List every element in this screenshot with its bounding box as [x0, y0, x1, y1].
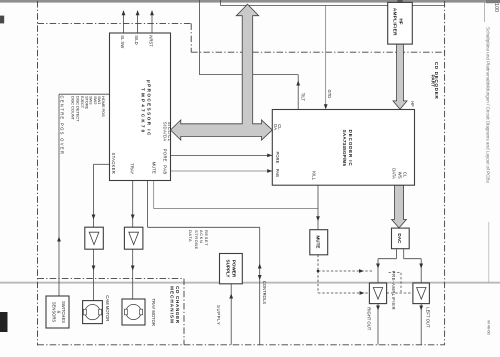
svg-text:STROBE: STROBE [194, 230, 199, 250]
label DATA ctrl [188, 230, 193, 242]
svg-text:TRAY: TRAY [130, 163, 135, 174]
svg-text:GTD: GTD [327, 90, 332, 99]
svg-text:CAM MOTOR: CAM MOTOR [105, 295, 110, 321]
label CL decoder [277, 124, 282, 130]
svg-text:KILL: KILL [311, 171, 316, 180]
chain border bottom [38, 344, 445, 346]
DAC block [392, 228, 410, 249]
label CD CHANGER MECHANISM [169, 286, 180, 324]
margin line mid [488, 222, 490, 283]
svg-text:PRE-AMPLIFIER: PRE-AMPLIFIER [391, 271, 396, 310]
page top scan band [0, 0, 500, 3]
wire DAC out right-ch [376, 249, 396, 283]
film marker top-left [0, 16, 4, 24]
label MUTE block [316, 235, 321, 248]
label DATA [392, 168, 397, 179]
label TILT [301, 93, 306, 102]
tray motor driver [124, 227, 142, 249]
bus HF amp to decoder [393, 44, 407, 109]
label DISC DETECT [76, 96, 81, 122]
label SUPPLY [216, 305, 221, 325]
label PORE decoder [275, 152, 280, 164]
wire controls from uP [148, 181, 260, 345]
chain box CD changer mechanism top [38, 278, 185, 280]
label PAB decoder [275, 169, 280, 177]
bus CL WS DATA to DAC [392, 185, 407, 228]
label CONTROLS [262, 281, 267, 304]
svg-text:TRAY MOTOR: TRAY MOTOR [151, 299, 156, 326]
svg-text:PAB: PAB [163, 165, 168, 174]
svg-text:SUPPLY: SUPPLY [226, 260, 231, 278]
label SIDA/DA [163, 122, 168, 142]
label NRST [149, 35, 154, 47]
svg-text:HF: HF [410, 101, 415, 107]
svg-text:SILD: SILD [134, 35, 139, 44]
wire GTD drop [324, 5, 328, 109]
label HOME POS [101, 96, 106, 117]
label EJECT [80, 96, 85, 109]
label CD DECODER PART [430, 62, 439, 100]
label WS [398, 172, 403, 179]
dashed mute to junction [317, 255, 319, 271]
chain border top segment B [191, 51, 444, 53]
label switches sensors [52, 301, 66, 323]
bus SICL/SIDA with branch to top [171, 4, 273, 140]
cam motor driver [85, 227, 104, 249]
svg-text:Schaltpläne und Platinenabbild: Schaltpläne und Platinenabbildungen / Ci… [485, 27, 490, 183]
label HF amplifier [393, 8, 404, 36]
svg-text:HF: HF [398, 19, 403, 25]
svg-text:SENSORS: SENSORS [52, 302, 57, 323]
wire left out [419, 304, 423, 345]
wire NRST pin up [150, 10, 154, 33]
svg-text:PORE: PORE [275, 152, 280, 164]
page fold line [0, 282, 500, 284]
power supply block [220, 254, 243, 284]
label DAC [397, 233, 402, 244]
wire MUTE from uP [154, 181, 318, 209]
label TRAY MOTOR [151, 299, 156, 326]
label GTD [327, 90, 332, 99]
label LEFT OUT [425, 307, 430, 328]
dashed preamp link [387, 292, 413, 294]
svg-text:WS: WS [398, 172, 403, 179]
dashed mute lower branch [318, 271, 369, 295]
label decoder title [342, 130, 353, 167]
wire tray drive [131, 181, 135, 228]
label SILD [134, 35, 139, 44]
svg-text:SIDA/DA: SIDA/DA [163, 122, 168, 142]
margin doc number [486, 320, 491, 335]
microprocessor IC block [110, 33, 171, 181]
controls double arrow [258, 264, 262, 281]
wire TILT run [199, 0, 300, 110]
bus pickup into HF amp [397, 0, 403, 3]
svg-text:CENTRE POS OVER: CENTRE POS OVER [59, 96, 64, 156]
svg-text:STACKER: STACKER [111, 153, 116, 175]
svg-text:µPROCESSOR IC: µPROCESSOR IC [146, 80, 151, 137]
svg-text:SL SW: SL SW [120, 35, 125, 48]
svg-text:CONTROLS: CONTROLS [262, 281, 267, 304]
svg-text:DATA: DATA [392, 168, 397, 179]
label SW3 [89, 96, 94, 105]
wire PAB [171, 169, 273, 173]
svg-text:TMP47CK70: TMP47CK70 [140, 88, 145, 134]
svg-text:AMPLIFIER: AMPLIFIER [393, 8, 398, 36]
margin page number [493, 3, 499, 12]
svg-text:DA: DA [273, 124, 278, 130]
label PAB uP [163, 165, 168, 174]
wire DAC out left-ch [404, 249, 423, 283]
dashed mute upper branch [318, 269, 374, 273]
label KILL [311, 171, 316, 180]
svg-text:MUTE: MUTE [316, 235, 321, 248]
preamp right channel [369, 283, 386, 304]
margin header text [485, 27, 490, 183]
label SW2 [93, 96, 98, 105]
margin tick line top [483, 0, 485, 22]
wire PORE [171, 154, 273, 158]
svg-text:RIGHT OUT: RIGHT OUT [367, 307, 372, 330]
label RIGHT OUT [367, 307, 372, 330]
chain border right [444, 1, 446, 345]
svg-text:DISC COUNT: DISC COUNT [70, 96, 75, 120]
svg-text:M 46-00: M 46-00 [486, 320, 491, 335]
wire stacker drive [92, 164, 110, 227]
wire KILL to mute block [316, 185, 320, 230]
svg-text:PAB: PAB [275, 169, 280, 177]
wire top feed line [220, 0, 444, 5]
chain border step down [190, 23, 192, 52]
wire SL SW pin up [122, 10, 126, 33]
label SICL/CL [167, 122, 172, 142]
label SW1 [97, 96, 102, 105]
label PORE uP [163, 149, 168, 162]
label CAM MOTOR [105, 295, 110, 321]
decoder IC block [272, 110, 414, 186]
preamp left channel [413, 283, 430, 304]
label PRE-AMPLIFIER [391, 271, 396, 310]
HF amplifier block [388, 2, 413, 44]
label HF pin [410, 101, 415, 107]
label MUTE uP [151, 162, 156, 174]
label RESET [204, 230, 209, 246]
label ACKN [199, 230, 204, 243]
wire tray driver to motor [131, 249, 135, 299]
junction dot mute dashed [317, 270, 320, 273]
svg-text:POWER: POWER [232, 260, 237, 278]
tray motor [122, 299, 145, 325]
label CENTRE POS OVER [59, 96, 64, 156]
dashed preamp label box [389, 273, 402, 292]
svg-text:NRST: NRST [149, 35, 154, 47]
chain box CD changer mechanism right [183, 279, 185, 345]
svg-text:LEFT OUT: LEFT OUT [425, 307, 430, 328]
svg-text:100: 100 [493, 3, 499, 12]
label STORE [85, 96, 90, 110]
label power supply [226, 260, 237, 278]
svg-text:DAC: DAC [397, 233, 402, 244]
label CL ws [402, 172, 407, 178]
film marker bottom-left [0, 312, 8, 332]
label STACKER [111, 153, 116, 175]
svg-text:MECHANISM: MECHANISM [169, 286, 174, 324]
wire switches to uP [57, 94, 109, 296]
svg-text:SAA7345GP/M5: SAA7345GP/M5 [342, 130, 347, 167]
svg-text:PART: PART [430, 75, 435, 88]
svg-text:CD CHANGER: CD CHANGER [175, 286, 180, 324]
svg-text:DATA: DATA [188, 230, 193, 242]
svg-text:DECODER IC: DECODER IC [348, 130, 353, 167]
wire right out [376, 304, 380, 345]
svg-text:TILT: TILT [301, 93, 306, 102]
wire SILD pin up [136, 10, 140, 33]
wire supply [229, 284, 233, 345]
svg-text:PORE: PORE [163, 149, 168, 162]
svg-text:MUTE: MUTE [151, 162, 156, 174]
svg-text:DISC DETECT: DISC DETECT [76, 96, 81, 122]
chain border left [37, 1, 39, 345]
svg-text:SUPPLY: SUPPLY [216, 305, 221, 325]
label DISC COUNT [70, 96, 75, 120]
label uprocessor title [140, 80, 151, 137]
label TRAY uP [130, 163, 135, 174]
label SL SW [120, 35, 125, 48]
chain border top segment A [38, 22, 192, 24]
cam motor [83, 301, 103, 324]
label STROBE [194, 230, 199, 250]
switches and sensors block [46, 296, 69, 328]
label DA decoder [273, 124, 278, 130]
wire cam driver to motor [92, 249, 96, 300]
MUTE block [310, 230, 328, 255]
